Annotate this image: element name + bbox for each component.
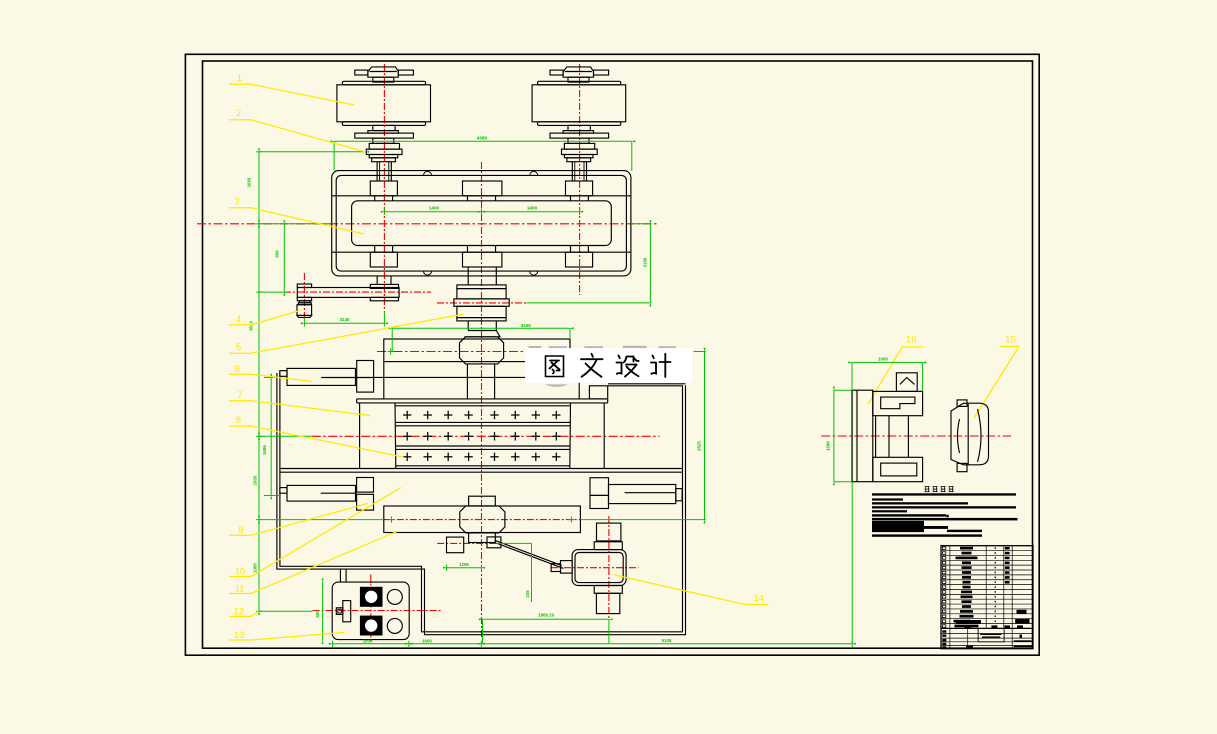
svg-text:14: 14 [753, 593, 764, 604]
svg-text:15: 15 [1005, 335, 1016, 346]
svg-text:1809.19: 1809.19 [538, 613, 554, 618]
svg-text:1600: 1600 [422, 639, 432, 644]
svg-text:1580: 1580 [826, 441, 831, 451]
svg-text:16: 16 [906, 335, 917, 346]
svg-text:8: 8 [236, 415, 241, 426]
svg-text:2525: 2525 [697, 441, 702, 451]
svg-text:500: 500 [315, 610, 320, 618]
svg-text:1400: 1400 [527, 206, 538, 211]
svg-text:3140: 3140 [340, 317, 350, 322]
svg-text:11: 11 [235, 584, 245, 595]
svg-text:9: 9 [238, 525, 243, 536]
svg-text:245: 245 [525, 590, 530, 598]
svg-text:7: 7 [237, 390, 242, 401]
svg-text:5105: 5105 [662, 638, 672, 643]
svg-text:4380: 4380 [477, 136, 488, 141]
svg-text:3: 3 [234, 197, 239, 208]
svg-text:1000: 1000 [363, 638, 373, 643]
svg-text:1093: 1093 [247, 177, 252, 187]
svg-text:6: 6 [235, 364, 240, 375]
svg-text:3013: 3013 [249, 321, 254, 331]
svg-text:1935: 1935 [253, 475, 258, 485]
svg-text:1: 1 [237, 73, 242, 84]
svg-text:1300: 1300 [253, 563, 258, 573]
svg-text:3150: 3150 [643, 257, 648, 267]
svg-text:4: 4 [236, 314, 241, 325]
svg-text:10: 10 [235, 567, 246, 578]
svg-text:1686: 1686 [262, 445, 267, 455]
svg-text:5: 5 [236, 342, 241, 353]
svg-text:1255: 1255 [459, 562, 469, 567]
svg-text:13: 13 [234, 630, 245, 641]
svg-text:8160: 8160 [521, 323, 531, 328]
svg-text:1400: 1400 [429, 206, 440, 211]
svg-text:1000: 1000 [878, 357, 888, 362]
svg-text:950: 950 [275, 250, 280, 258]
svg-text:2: 2 [236, 108, 241, 119]
